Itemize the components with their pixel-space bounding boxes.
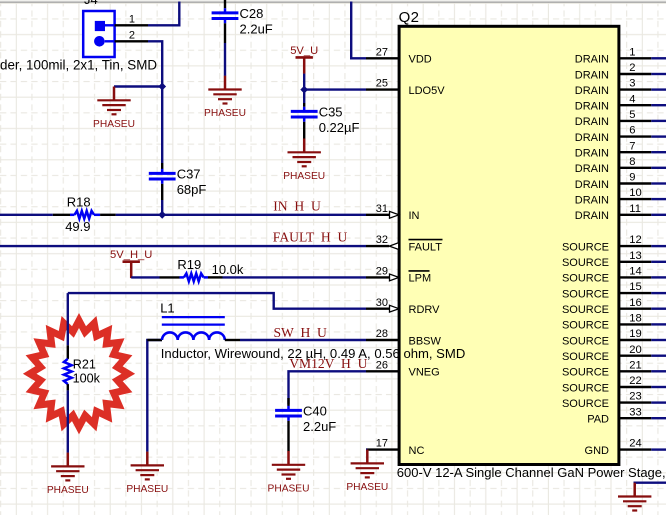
- svg-text:5: 5: [629, 109, 635, 121]
- svg-text:DRAIN: DRAIN: [575, 54, 609, 66]
- svg-text:PHASEU: PHASEU: [93, 119, 135, 130]
- junction at ground tap: [158, 83, 166, 91]
- pin SOURCE (pin 13): [562, 250, 651, 269]
- wire C40 top stub: [287, 398, 289, 406]
- svg-text:PHASEU: PHASEU: [346, 482, 388, 493]
- ground PHASEU (R21): [47, 453, 89, 496]
- svg-text:6: 6: [629, 125, 635, 137]
- svg-text:4: 4: [629, 93, 635, 105]
- svg-text:SW H U: SW H U: [274, 325, 328, 340]
- svg-text:7: 7: [629, 140, 635, 152]
- svg-text:0.22µF: 0.22µF: [319, 120, 360, 135]
- wire from pin 3 to sheet edge: [651, 88, 666, 90]
- svg-text:PHASEU: PHASEU: [268, 483, 310, 494]
- pin SOURCE (pin 23): [562, 391, 651, 410]
- svg-text:31: 31: [376, 203, 388, 215]
- svg-text:PHASEU: PHASEU: [283, 171, 325, 182]
- wire from pin 6 to sheet edge: [651, 135, 666, 137]
- svg-text:22: 22: [629, 375, 641, 387]
- wire junction down to C35: [303, 90, 305, 107]
- junction at LDO5V tap: [300, 86, 308, 94]
- J4 pin 1: [115, 13, 148, 25]
- svg-text:33: 33: [629, 406, 641, 418]
- wire from pin 18 to sheet edge: [651, 323, 666, 325]
- svg-text:1: 1: [129, 13, 135, 25]
- pin RDRV (pin 30): [366, 297, 440, 316]
- svg-text:16: 16: [629, 297, 641, 309]
- inductor L1: [147, 300, 240, 340]
- ground PHASEU (C40): [268, 451, 310, 494]
- wire from pin 14 to sheet edge: [651, 276, 666, 278]
- pin PAD (pin 33): [587, 406, 651, 425]
- svg-text:SOURCE: SOURCE: [562, 288, 609, 300]
- wire C37 bottom to IN net: [161, 184, 163, 215]
- wire from pin 1 to sheet edge: [651, 57, 666, 59]
- svg-text:PHASEU: PHASEU: [126, 484, 168, 495]
- capacitor C35: [291, 105, 360, 136]
- svg-text:24: 24: [629, 438, 641, 450]
- pin VNEG (pin 26): [366, 359, 440, 378]
- svg-text:15: 15: [629, 281, 641, 293]
- svg-text:DRAIN: DRAIN: [575, 101, 609, 113]
- capacitor C37: [149, 167, 207, 198]
- pin SOURCE (pin 22): [562, 375, 651, 394]
- pin DRAIN (pin 6): [575, 125, 652, 144]
- wire from pin 19 to sheet edge: [651, 339, 666, 341]
- pin DRAIN (pin 2): [575, 62, 652, 81]
- pin BBSW (pin 28): [366, 328, 442, 347]
- pin VDD (pin 27): [366, 46, 432, 65]
- wire from pin 12 to sheet edge: [651, 245, 666, 247]
- svg-text:18: 18: [629, 313, 641, 325]
- svg-text:30: 30: [376, 297, 388, 309]
- svg-text:100k: 100k: [73, 371, 101, 385]
- svg-text:PHASEU: PHASEU: [204, 108, 246, 119]
- wire from pin 33 to sheet edge: [651, 417, 666, 419]
- svg-text:5V_U: 5V_U: [290, 45, 318, 57]
- wire from pin 11 to sheet edge: [651, 214, 666, 216]
- svg-text:2: 2: [129, 29, 135, 41]
- svg-text:8: 8: [629, 156, 635, 168]
- wire from pin 22 to sheet edge: [651, 386, 666, 388]
- wire from pin 8 to sheet edge: [651, 167, 666, 169]
- svg-text:PAD: PAD: [587, 414, 609, 426]
- svg-text:5V_H_U: 5V_H_U: [110, 249, 152, 261]
- wire L1 to pin BBSW: [240, 339, 366, 341]
- svg-text:IN: IN: [409, 210, 420, 222]
- svg-text:SOURCE: SOURCE: [562, 257, 609, 269]
- svg-text:68pF: 68pF: [177, 182, 207, 197]
- connector J4 body: [83, 11, 114, 57]
- pin SOURCE (pin 16): [562, 297, 651, 316]
- svg-text:C37: C37: [177, 167, 201, 182]
- wire from pin 10 to sheet edge: [651, 198, 666, 200]
- pin SOURCE (pin 21): [562, 359, 651, 378]
- wire from pin 5 to sheet edge: [651, 120, 666, 122]
- wire from pin 21 to sheet edge: [651, 370, 666, 372]
- svg-text:23: 23: [629, 391, 641, 403]
- svg-text:27: 27: [376, 46, 388, 58]
- net label VM12V_H_U: [289, 356, 367, 371]
- wire J4 pin1 to top edge: [148, 2, 179, 26]
- wire VM12V net: [289, 371, 367, 404]
- svg-text:LDO5V: LDO5V: [409, 85, 446, 97]
- svg-text:VNEG: VNEG: [409, 367, 440, 379]
- svg-text:FAULT: FAULT: [409, 241, 443, 253]
- wire from pin 16 to sheet edge: [651, 308, 666, 310]
- svg-text:25: 25: [376, 78, 388, 90]
- ground PHASEU (C35): [283, 139, 325, 182]
- pin SOURCE (pin 14): [562, 266, 651, 285]
- pin SOURCE (pin 19): [562, 328, 651, 347]
- ground PHASEU (L1 branch): [126, 452, 168, 495]
- svg-text:3: 3: [629, 78, 635, 90]
- pin LDO5V (pin 25): [366, 78, 445, 97]
- svg-text:SOURCE: SOURCE: [562, 351, 609, 363]
- svg-text:1: 1: [629, 46, 635, 58]
- wire C28 top (from top edge): [224, 0, 226, 8]
- svg-text:IN H U: IN H U: [273, 199, 321, 214]
- pin NC (pin 17): [366, 438, 424, 457]
- svg-text:12: 12: [629, 234, 641, 246]
- svg-text:R21: R21: [73, 357, 96, 371]
- svg-text:SOURCE: SOURCE: [562, 241, 609, 253]
- IC Q2 body (GaN power stage): [399, 26, 619, 464]
- pin SOURCE (pin 18): [562, 313, 651, 332]
- toolbar bottom edge: [0, 0, 666, 2]
- pin GND (pin 24): [585, 438, 652, 457]
- svg-text:SOURCE: SOURCE: [562, 273, 609, 285]
- wire RDRV net: [68, 293, 366, 309]
- pin DRAIN (pin 4): [575, 93, 652, 112]
- J4 pin 2: [115, 29, 148, 41]
- svg-text:19: 19: [629, 328, 641, 340]
- svg-text:der, 100mil, 2x1, Tin, SMD: der, 100mil, 2x1, Tin, SMD: [0, 58, 157, 73]
- wire from pin 13 to sheet edge: [651, 261, 666, 263]
- wire C28 bottom: [224, 23, 226, 76]
- svg-text:DRAIN: DRAIN: [575, 69, 609, 81]
- wire L1 left branch: [147, 340, 162, 452]
- power port 5V_U: [290, 45, 318, 74]
- designator J4 (cut off at top): [84, 0, 98, 7]
- svg-text:2: 2: [629, 62, 635, 74]
- svg-text:13: 13: [629, 250, 641, 262]
- capacitor C28: [212, 6, 273, 37]
- pin SOURCE (pin 15): [562, 281, 651, 300]
- svg-text:DRAIN: DRAIN: [575, 116, 609, 128]
- svg-text:C28: C28: [240, 6, 264, 21]
- svg-text:DRAIN: DRAIN: [575, 179, 609, 191]
- svg-text:PHASEU: PHASEU: [47, 485, 89, 496]
- wire from pin 7 to sheet edge: [651, 151, 666, 153]
- wire from pin 9 to sheet edge: [651, 182, 666, 184]
- svg-text:DRAIN: DRAIN: [575, 132, 609, 144]
- svg-text:600-V 12-A Single Channel GaN: 600-V 12-A Single Channel GaN Power Stag…: [397, 465, 666, 480]
- svg-text:DRAIN: DRAIN: [575, 163, 609, 175]
- wire to PHASEU ground (J4 branch): [114, 85, 162, 87]
- wire bottom right from sheet edge: [635, 483, 666, 486]
- svg-text:10: 10: [629, 187, 641, 199]
- svg-text:SOURCE: SOURCE: [562, 304, 609, 316]
- ground PHASEU (NC pin): [346, 450, 388, 493]
- pin SOURCE (pin 20): [562, 344, 651, 363]
- pin DRAIN (pin 10): [575, 187, 652, 206]
- resistor R21: [64, 293, 101, 453]
- pin DRAIN (pin 5): [575, 109, 652, 128]
- pin DRAIN (pin 7): [575, 140, 652, 159]
- svg-text:C35: C35: [319, 105, 343, 120]
- wire C35 bottom: [303, 122, 305, 139]
- svg-text:10.0k: 10.0k: [212, 262, 244, 277]
- svg-text:RDRV: RDRV: [409, 304, 441, 316]
- svg-text:2.2uF: 2.2uF: [303, 419, 336, 434]
- wire VDD from top edge: [351, 2, 366, 59]
- svg-text:VDD: VDD: [409, 54, 432, 66]
- svg-text:SOURCE: SOURCE: [562, 367, 609, 379]
- svg-text:Q2: Q2: [399, 9, 420, 26]
- wire 5V_H_U to R19: [131, 276, 159, 278]
- wire FAULT net: [0, 245, 366, 247]
- svg-text:17: 17: [376, 438, 388, 450]
- svg-text:DRAIN: DRAIN: [575, 194, 609, 206]
- wire pin NC to ground: [366, 448, 367, 450]
- svg-text:L1: L1: [160, 300, 174, 315]
- pin DRAIN (pin 11): [575, 203, 652, 222]
- pin DRAIN (pin 1): [575, 46, 652, 65]
- svg-text:49.9: 49.9: [65, 219, 90, 234]
- svg-text:GND: GND: [585, 445, 610, 457]
- svg-text:R18: R18: [67, 194, 91, 209]
- wire from pin 4 to sheet edge: [651, 104, 666, 106]
- svg-text:SOURCE: SOURCE: [562, 320, 609, 332]
- ground PHASEU (bottom right, cut off): [618, 483, 651, 511]
- wire from pin 2 to sheet edge: [651, 73, 666, 75]
- resistor R19: [160, 257, 244, 282]
- ground PHASEU (C28): [204, 76, 246, 119]
- svg-text:LPM: LPM: [409, 273, 432, 285]
- wire from pin 20 to sheet edge: [651, 355, 666, 357]
- svg-text:C40: C40: [303, 404, 327, 419]
- wire from pin 15 to sheet edge: [651, 292, 666, 294]
- wire J4 pin2 down (to C37 branch): [148, 41, 162, 169]
- capacitor C40: [275, 404, 336, 435]
- wire C40 bottom: [287, 421, 289, 451]
- net label IN_H_U: [273, 199, 321, 214]
- svg-text:DRAIN: DRAIN: [575, 210, 609, 222]
- svg-text:29: 29: [376, 266, 388, 278]
- svg-text:DRAIN: DRAIN: [575, 85, 609, 97]
- pin DRAIN (pin 9): [575, 172, 652, 191]
- inductor L1 comment: [161, 346, 466, 361]
- resistor R18: [53, 194, 116, 234]
- svg-text:NC: NC: [409, 445, 425, 457]
- wire IN net to pin IN: [116, 214, 366, 216]
- wire to pin LDO5V: [304, 88, 366, 90]
- wire R19 to pin LPM: [223, 276, 367, 278]
- pin LPM (pin 29): [366, 266, 431, 285]
- svg-text:SOURCE: SOURCE: [562, 335, 609, 347]
- svg-text:21: 21: [629, 359, 641, 371]
- svg-text:SOURCE: SOURCE: [562, 382, 609, 394]
- net label FAULT_H_U: [273, 230, 348, 245]
- svg-text:14: 14: [629, 266, 641, 278]
- svg-text:9: 9: [629, 172, 635, 184]
- pin DRAIN (pin 3): [575, 78, 652, 97]
- red violation burst around R21: [30, 321, 129, 427]
- pin SOURCE (pin 12): [562, 234, 651, 253]
- svg-text:32: 32: [376, 234, 388, 246]
- svg-text:20: 20: [629, 344, 641, 356]
- svg-text:DRAIN: DRAIN: [575, 148, 609, 160]
- wire from pin 23 to sheet edge: [651, 401, 666, 403]
- wire IN net left segment: [0, 214, 53, 216]
- junction on IN net: [158, 211, 166, 219]
- svg-text:J4: J4: [84, 0, 98, 7]
- svg-text:R19: R19: [177, 257, 201, 272]
- J4 comment text: [0, 58, 157, 73]
- wire 5V_U to junction: [303, 74, 305, 90]
- svg-text:26: 26: [376, 359, 388, 371]
- power port 5V_H_U: [110, 249, 152, 278]
- wire from pin 24 to sheet edge: [651, 448, 666, 450]
- net label SW_H_U: [274, 325, 328, 340]
- IC description caption: [397, 465, 666, 480]
- pin FAULT (pin 32): [366, 234, 443, 253]
- svg-text:VM12V H U: VM12V H U: [289, 356, 367, 371]
- ground PHASEU (J4 branch): [93, 87, 135, 130]
- svg-text:11: 11: [629, 203, 641, 215]
- svg-text:2.2uF: 2.2uF: [240, 22, 273, 37]
- designator Q2: [399, 9, 420, 26]
- svg-text:FAULT H U: FAULT H U: [273, 230, 348, 245]
- svg-text:SOURCE: SOURCE: [562, 398, 609, 410]
- pin IN (pin 31): [366, 203, 420, 222]
- pin DRAIN (pin 8): [575, 156, 652, 175]
- svg-text:28: 28: [376, 328, 388, 340]
